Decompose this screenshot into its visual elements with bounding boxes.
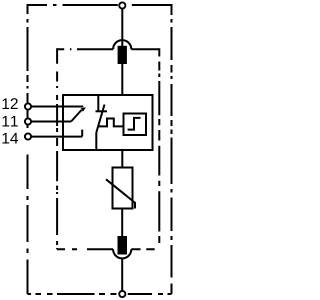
disconnect blade diagonal <box>96 105 104 133</box>
terminal label 11 <box>2 116 17 127</box>
wire terminal 12 into box (NC contact line) <box>31 106 83 108</box>
changeover contact arm K1 (diagonal with arrowhead) <box>71 110 81 122</box>
outer enclosure border left edge (dash-dot) <box>27 4 29 294</box>
terminal node 12 (circle on left edge) <box>25 103 31 109</box>
signal linkage line with notch to indicator <box>98 119 123 127</box>
inner plug-in module border left edge (dash-dot) <box>56 48 58 249</box>
outer enclosure border right edge (dash-dot) <box>171 4 173 294</box>
outer enclosure border top edge (dash-dot) <box>28 4 172 6</box>
pulse step symbol <box>128 118 141 130</box>
inner plug-in module border right edge (dash-dot) <box>158 48 160 243</box>
terminal label 12 <box>2 98 17 109</box>
terminal node top (circle on top edge) <box>119 2 125 8</box>
wire: varistor to bottom plug contact <box>121 209 123 237</box>
thermal disconnect device: fixed contact from box top <box>97 95 99 112</box>
wire: bottom plug contact to bottom terminal <box>121 258 123 291</box>
wire: monitoring box to varistor <box>121 150 123 168</box>
terminal node 14 (circle on left edge) <box>25 133 31 139</box>
terminal node 11 (circle on left edge) <box>25 118 31 124</box>
plug-in contact bottom (filled bar + cup arc) <box>118 236 128 255</box>
thermal disconnect crossbar <box>96 110 108 112</box>
terminal node bottom (circle on bottom edge) <box>119 291 125 297</box>
inner plug-in module border bottom edge (dash-dot, interrupted by arc) <box>57 248 155 250</box>
varistor RV1 body <box>113 168 133 209</box>
wire: plug contact to monitoring box <box>121 64 123 95</box>
wire terminal 11 into box (common line) <box>31 121 71 123</box>
inner plug-in module border top edge (dash-dot, interrupted by arc) <box>57 48 159 50</box>
varistor diagonal stroke <box>106 179 135 208</box>
plug-in contact top (arc + filled bar) <box>113 40 131 49</box>
outer enclosure border bottom edge (dash-dot) <box>28 293 172 295</box>
wire: top terminal down to plug contact <box>121 9 123 46</box>
wire blade to box bottom <box>95 133 97 150</box>
monitoring unit box U1 <box>63 95 153 150</box>
terminal label 14 <box>2 133 18 144</box>
signalling indicator box (pulse symbol) <box>124 114 147 136</box>
wire terminal 14 into box (NO contact line) <box>31 130 82 137</box>
